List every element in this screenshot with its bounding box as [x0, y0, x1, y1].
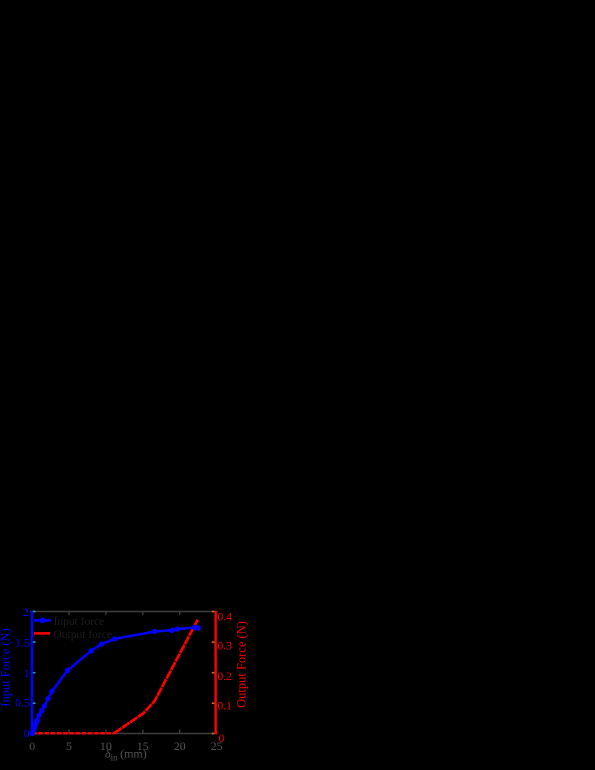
red output force curve flat dashed part — [32, 732, 114, 735]
top inward ticks — [69, 612, 180, 616]
left tick labels (blue) — [15, 607, 30, 741]
legend marker blue — [40, 618, 46, 624]
svg-text:Input Force (N): Input Force (N) — [0, 628, 13, 706]
svg-text:5: 5 — [66, 739, 72, 753]
left blue ticks — [33, 612, 36, 734]
x tick labels (gray) — [29, 739, 223, 753]
left y axis (blue) — [31, 611, 34, 735]
legend line sample blue — [34, 619, 51, 622]
svg-text:Output Force (N): Output Force (N) — [235, 621, 249, 708]
right tick labels (red) — [218, 612, 233, 746]
svg-text:25: 25 — [211, 739, 223, 753]
svg-text:0: 0 — [29, 739, 35, 753]
bottom x axis line — [30, 733, 218, 735]
svg-text:Output force: Output force — [54, 629, 112, 641]
svg-text:2: 2 — [23, 607, 29, 619]
top axis line — [30, 611, 218, 613]
svg-text:0.5: 0.5 — [15, 697, 30, 709]
right y axis (red) — [214, 611, 216, 735]
svg-text:0.2: 0.2 — [218, 671, 233, 683]
svg-text:1.5: 1.5 — [15, 638, 30, 650]
right red ticks — [212, 612, 215, 734]
legend line sample red — [34, 632, 50, 635]
svg-text:0.1: 0.1 — [218, 700, 233, 712]
red output force curve rising part — [114, 620, 198, 734]
svg-text:20: 20 — [174, 739, 186, 753]
bottom inward ticks — [69, 730, 180, 734]
svg-text:Input force: Input force — [54, 616, 105, 628]
blue input force curve — [32, 628, 198, 734]
svg-text:0.4: 0.4 — [218, 612, 233, 624]
blue curve markers — [29, 625, 201, 736]
svg-text:0.3: 0.3 — [218, 641, 233, 653]
svg-text:1: 1 — [24, 668, 30, 680]
